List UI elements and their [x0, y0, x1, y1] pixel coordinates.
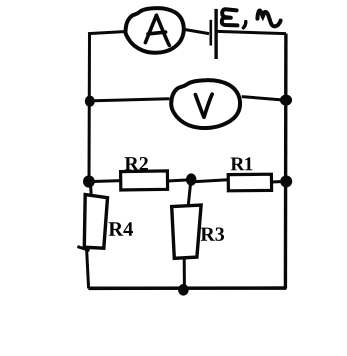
node left resistor-row junction: [83, 175, 95, 187]
node right resistor-row junction: [280, 175, 292, 187]
resistor R1: [228, 174, 271, 191]
node left voltmeter junction: [85, 96, 95, 107]
wire R1 to right rail: [272, 180, 286, 184]
label R3: [201, 227, 224, 240]
wire ammeter to battery: [186, 30, 210, 34]
node center junction: [186, 173, 196, 185]
wire voltmeter row left: [89, 99, 170, 101]
resistor R3: [172, 205, 201, 258]
wire left rail: [88, 33, 92, 182]
wire node to R3: [188, 182, 191, 206]
voltmeter V1 circle: [171, 80, 240, 128]
ammeter A1 circle: [125, 8, 183, 53]
wire right rail: [284, 34, 288, 289]
label r: [257, 10, 280, 26]
wire node to R4: [89, 182, 93, 195]
wire R4 to bottom: [87, 249, 89, 288]
ammeter letter A: [145, 15, 169, 45]
wire R3 to bottom: [183, 258, 186, 288]
battery long plate: [214, 9, 217, 59]
label epsilon: [222, 9, 238, 25]
resistor R4: [84, 195, 107, 249]
wire top right segment: [217, 31, 286, 33]
voltmeter letter V: [195, 94, 212, 117]
wire bottom rail: [88, 286, 286, 290]
wire center node to R1: [196, 180, 229, 182]
label R4: [109, 222, 133, 235]
label R1: [231, 157, 253, 170]
label R2: [125, 157, 148, 170]
wire R2 to center node: [168, 180, 191, 181]
wire R4 bottom tick: [77, 247, 89, 251]
wire left to R2: [89, 181, 122, 182]
label comma: [243, 22, 245, 28]
node right voltmeter junction: [280, 95, 292, 106]
battery short plate: [210, 20, 213, 46]
resistor R2: [121, 171, 168, 190]
wire top left segment: [88, 32, 124, 34]
node bottom junction: [178, 284, 189, 296]
wire voltmeter row right: [242, 97, 286, 101]
